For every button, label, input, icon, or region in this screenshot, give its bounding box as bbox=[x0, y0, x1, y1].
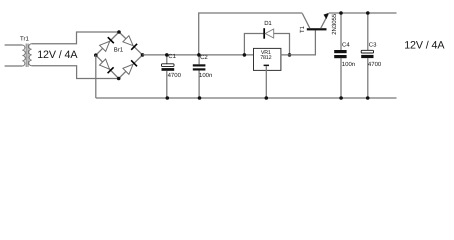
svg-text:C2: C2 bbox=[200, 54, 208, 61]
junction C1 bottom bbox=[166, 96, 170, 100]
svg-text:T1: T1 bbox=[299, 25, 306, 33]
wire D1 right branch down to VR1 output bbox=[274, 34, 290, 55]
wire mid rail DC+ to VR1 input bbox=[143, 54, 254, 56]
node bridge top (AC) bbox=[117, 30, 121, 34]
wire C2 bottom lead bbox=[198, 71, 200, 99]
wire C3 bottom lead bbox=[367, 58, 369, 98]
wire secondary bottom to bridge bottom node bbox=[32, 66, 119, 79]
svg-text:100n: 100n bbox=[342, 61, 355, 68]
junction C4 top bbox=[339, 11, 343, 15]
bridge diode TR bbox=[123, 36, 133, 46]
wire top rail right (output +) bbox=[329, 12, 397, 14]
wire C4 bottom lead bbox=[340, 58, 342, 98]
junction C2 top / riser bbox=[197, 53, 201, 57]
junction C3 bottom bbox=[366, 96, 370, 100]
transformer core lines bbox=[25, 44, 27, 68]
wire C4 top lead bbox=[340, 13, 342, 50]
svg-text:4700: 4700 bbox=[368, 61, 382, 68]
capacitor C4 bottom plate bbox=[334, 55, 346, 58]
node bridge right (DC+) bbox=[141, 53, 145, 57]
node bridge bottom (AC) bbox=[117, 77, 121, 81]
node bridge left (DC-) bbox=[94, 53, 98, 57]
wire DC- drop from left node bbox=[95, 55, 97, 98]
wire bottom rail (0V) bbox=[96, 97, 397, 99]
transistor T1 base bar bbox=[307, 28, 327, 30]
wire C1 bottom lead bbox=[166, 71, 168, 98]
bridge diode TL bbox=[100, 41, 110, 51]
svg-text:C3: C3 bbox=[369, 41, 377, 48]
transistor T1 collector lead bbox=[302, 13, 310, 28]
transformer Tr1 primary bottom lead bbox=[5, 65, 23, 67]
transformer Tr1 secondary winding bbox=[29, 44, 32, 66]
capacitor C1 bottom plate bbox=[162, 68, 175, 71]
junction C3 top bbox=[366, 11, 370, 15]
wire C1 top lead bbox=[166, 55, 168, 64]
capacitor C2 bottom plate bbox=[193, 68, 206, 70]
wire VR1 output to T1 base bbox=[280, 30, 315, 55]
wire bridge edge bottom-right bbox=[119, 55, 143, 79]
junction D1 left bbox=[243, 53, 247, 57]
svg-text:Br1: Br1 bbox=[114, 46, 124, 53]
svg-text:D1: D1 bbox=[264, 20, 272, 27]
junction C4 bottom bbox=[339, 96, 343, 100]
wire bridge edge left-top bbox=[96, 32, 119, 55]
bridge diode BL bbox=[100, 59, 110, 69]
transistor T1 emitter arrowhead bbox=[324, 13, 329, 19]
svg-text:4700: 4700 bbox=[168, 72, 182, 79]
svg-text:Tr1: Tr1 bbox=[20, 35, 29, 42]
transformer Tr1 primary top lead bbox=[5, 44, 23, 46]
junction D1 right / VR1 output bbox=[288, 53, 292, 57]
wire riser at C2 up to top rail (unregulated +) bbox=[199, 13, 303, 55]
junction C2 bottom bbox=[198, 96, 202, 100]
svg-text:7812: 7812 bbox=[260, 55, 271, 61]
wire VR1 ground to bottom rail bbox=[265, 66, 267, 98]
transformer Tr1 primary winding bbox=[22, 45, 25, 66]
svg-text:2N3055: 2N3055 bbox=[331, 13, 338, 35]
svg-text:C4: C4 bbox=[342, 41, 350, 48]
capacitor C3 top plate (+) bbox=[361, 50, 373, 53]
wire secondary top to bridge top node bbox=[32, 32, 119, 44]
transistor T1 emitter lead bbox=[321, 14, 329, 28]
regulator VR1 7812 box bbox=[254, 48, 281, 70]
svg-text:12V / 4A: 12V / 4A bbox=[37, 49, 78, 61]
wire bridge edge left-bottom bbox=[96, 55, 119, 78]
diode D1 triangle bbox=[265, 29, 274, 38]
wire C2 top lead bbox=[198, 55, 200, 64]
capacitor C1 top plate (+) bbox=[162, 64, 175, 67]
capacitor C2 top plate bbox=[193, 64, 206, 66]
diode D1 cathode bar bbox=[263, 28, 265, 39]
wire bridge edge top-right bbox=[119, 32, 143, 55]
bridge diode BR bbox=[123, 64, 133, 74]
VR1 ground pin bar bbox=[264, 65, 269, 67]
junction C1 top bbox=[165, 53, 169, 57]
capacitor C3 bottom plate bbox=[361, 55, 373, 58]
wire D1 left branch bbox=[244, 34, 263, 55]
junction VR1 ground bbox=[265, 96, 269, 100]
svg-text:C1: C1 bbox=[168, 53, 176, 60]
svg-text:100n: 100n bbox=[199, 72, 212, 79]
wire C3 top lead bbox=[367, 13, 369, 50]
capacitor C4 top plate bbox=[334, 50, 346, 53]
svg-text:12V / 4A: 12V / 4A bbox=[404, 39, 445, 51]
